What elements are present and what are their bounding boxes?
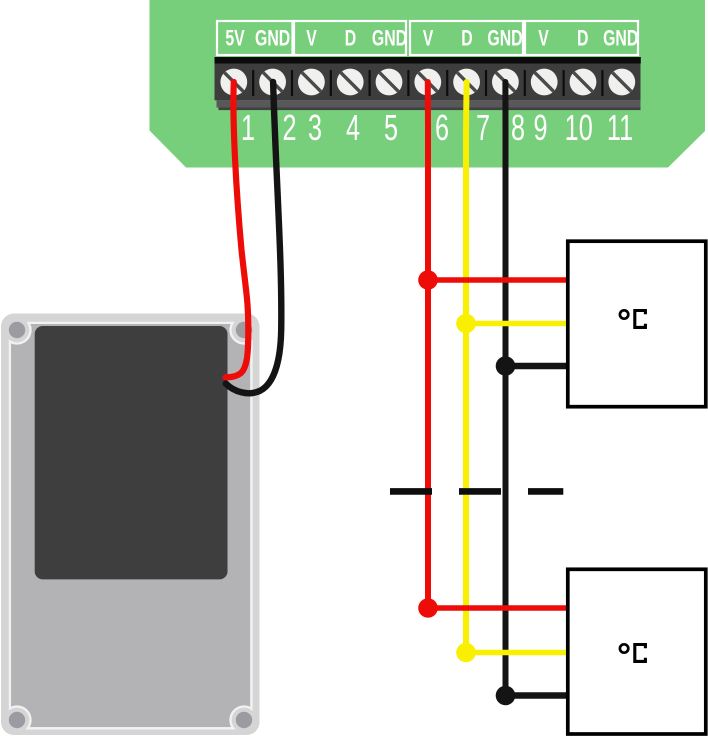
terminal strip lower bevel [217, 100, 641, 107]
junction node D / sensor2 [456, 643, 476, 663]
degree symbol sensor 1 [620, 310, 628, 318]
corner screw pad TL [4, 317, 31, 344]
screw 7 [453, 68, 481, 96]
junction node GND / sensor2 [496, 686, 516, 706]
screw 4 [336, 68, 364, 96]
label box V D GND (6-8) [410, 21, 523, 55]
label box V D GND (9-11) [525, 21, 638, 55]
svg-text:10: 10 [565, 108, 593, 149]
svg-text:D: D [461, 27, 473, 51]
wire V bus (red) from terminal 6 [425, 82, 431, 608]
terminal numbers 1-11 [241, 108, 633, 149]
junction node V / sensor2 [418, 598, 438, 618]
degree symbol sensor 2 [620, 644, 628, 652]
svg-text:9: 9 [533, 108, 547, 149]
screw 6 [414, 68, 442, 96]
inset white line [10, 323, 252, 728]
junction node D / sensor1 [456, 314, 476, 334]
screw 10 [569, 68, 597, 96]
svg-text:8: 8 [511, 108, 525, 149]
screw 3 [298, 68, 326, 96]
svg-text:D: D [577, 27, 589, 51]
svg-text:5V: 5V [225, 27, 245, 51]
terminal strip top band [215, 57, 641, 64]
terminal strip body [215, 64, 641, 101]
svg-text:GND: GND [487, 27, 522, 51]
label box 5V GND [217, 21, 293, 55]
screw 11 [608, 68, 636, 96]
svg-text:6: 6 [435, 108, 449, 149]
wire GND (black) from terminal 2 to power bank [226, 82, 282, 393]
screw 1 [220, 68, 248, 96]
outer shell [1, 314, 260, 736]
corner screw pad BR [231, 707, 258, 734]
wire V to sensor 1 (red) [428, 277, 568, 283]
svg-text:2: 2 [282, 108, 296, 149]
power bank enclosure (grey device) [1, 314, 260, 736]
svg-text:GND: GND [603, 27, 638, 51]
corner screw 244,330 [236, 322, 252, 338]
screw terminals 1-11 [0, 0, 1, 1]
corner screw 244,720 [236, 712, 252, 728]
junction node V / sensor1 [418, 270, 438, 290]
svg-text:V: V [306, 27, 317, 51]
screw 8 [492, 68, 520, 96]
wire GND bus (black) from terminal 8 [502, 82, 508, 696]
svg-text:GND: GND [372, 27, 407, 51]
screw 5 [375, 68, 403, 96]
wire 5V (red) from terminal 1 to power bank [226, 82, 249, 377]
wire V to sensor 2 (red) [428, 605, 568, 611]
terminal dividers [253, 70, 602, 96]
controller board (green PCB) [150, 0, 706, 168]
svg-text:D: D [345, 27, 357, 51]
inner face [11, 324, 251, 727]
dark front panel [35, 326, 228, 579]
wire GND to sensor 1 (black) [506, 363, 569, 370]
terminal strip bottom edge [219, 108, 641, 111]
svg-text:5: 5 [384, 108, 398, 149]
wire break marks [390, 488, 563, 495]
corner screw 17,330 [9, 322, 25, 338]
temperature sensor 1 [568, 241, 706, 407]
corner screw pad BL [4, 707, 31, 734]
C letter sensor 2 [635, 645, 646, 662]
wire GND to sensor 2 (black) [506, 692, 569, 699]
svg-text:4: 4 [346, 108, 360, 149]
screw 2 [259, 68, 287, 96]
C letter sensor 1 [635, 311, 646, 328]
label box V D GND (3-5) [294, 21, 406, 55]
wire D to sensor 1 (yellow) [466, 321, 568, 327]
svg-text:V: V [538, 27, 549, 51]
svg-text:7: 7 [476, 108, 490, 149]
wire D to sensor 2 (yellow) [466, 650, 568, 656]
corner screw 17,720 [9, 712, 25, 728]
junction node GND / sensor1 [496, 356, 516, 376]
svg-text:V: V [423, 27, 434, 51]
screw 9 [530, 68, 558, 96]
temperature sensor 2 [568, 569, 706, 734]
svg-text:11: 11 [607, 108, 633, 149]
svg-text:GND: GND [255, 27, 290, 51]
svg-text:1: 1 [241, 108, 255, 149]
svg-text:3: 3 [308, 108, 322, 149]
corner screw pad TR [231, 317, 258, 344]
wire D bus (yellow) from terminal 7 [463, 82, 470, 653]
